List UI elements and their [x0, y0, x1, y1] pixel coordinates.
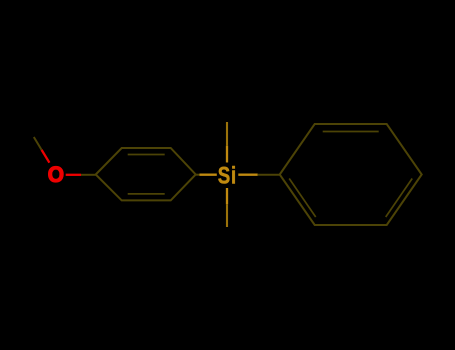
- wire: Si to ring2 bond, carbon half: [258, 174, 280, 176]
- svg-text:O: O: [48, 162, 64, 187]
- wire: Si methyl bond up, carbon half: [226, 122, 228, 146]
- ring 2 inner aromatic line lower-right: [386, 179, 413, 218]
- wire: ring1 to Si bond, silicon half: [200, 174, 217, 176]
- wire: Si methyl bond down, carbon half: [226, 204, 228, 227]
- wire: ring1 to Si bond, carbon half: [196, 174, 200, 176]
- wire: Si methyl bond up, silicon half: [226, 146, 228, 163]
- ring 2 inner aromatic line lower-left: [289, 179, 316, 218]
- wire: Si to ring2 bond, silicon half: [238, 174, 257, 176]
- wire: Si methyl bond down, silicon half: [226, 188, 228, 204]
- ring 2: phenyl benzene hexagon: [280, 124, 422, 225]
- ring 1: para-methoxyphenyl benzene hexagon: [96, 148, 196, 200]
- ring 1 inner aromatic line bottom: [128, 193, 165, 195]
- ring 1 inner aromatic line top: [128, 154, 165, 156]
- ring 2 inner aromatic line top: [323, 131, 379, 133]
- wire: O to ring1 bond, oxygen half: [66, 174, 81, 176]
- wire: methoxy CH3-O bond carbon half: [34, 137, 42, 150]
- svg-text:Si: Si: [218, 162, 237, 189]
- wire: methoxy CH3-O bond oxygen half: [42, 150, 50, 163]
- wire: O to ring1 bond, carbon half: [81, 174, 96, 176]
